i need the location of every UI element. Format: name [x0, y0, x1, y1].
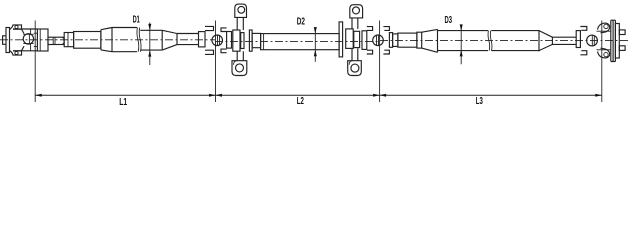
weld seam S curves right: [488, 31, 490, 51]
L3 left arrow: [380, 94, 387, 97]
bracket 2 bottom ear hook: [349, 61, 352, 65]
rear yoke ear top curl: [604, 24, 608, 28]
dimension extension line 1: [34, 21, 36, 103]
centerline left section: [0, 40, 629, 42]
centerline middle section: [215, 41, 380, 43]
rear yoke ear bottom: [598, 48, 610, 58]
u-joint 1 right arm inner top: [34, 32, 38, 34]
L1 right arrow: [209, 94, 216, 97]
joint 3 right boss: [389, 33, 392, 48]
taper 3 end tick: [551, 37, 553, 45]
bearing 1 inner ring: [241, 33, 244, 49]
rear flange boss top: [619, 30, 625, 35]
tube 3 left part: [438, 31, 489, 51]
u-joint 4 cross pin: [592, 35, 594, 45]
yoke 1 top edge: [13, 28, 37, 30]
dimension extension line 3: [379, 21, 381, 103]
yoke 1 web bottom: [22, 46, 25, 51]
L2 left arrow: [216, 94, 223, 97]
u-joint 2 cross pin: [218, 35, 220, 45]
u-joint 3 cross pin: [377, 35, 379, 45]
svg-text:L2: L2: [297, 96, 304, 107]
joint 3 left boss: [362, 31, 367, 50]
cone up right: [422, 29, 438, 52]
svg-text:D2: D2: [297, 16, 305, 27]
bearing 2 inner ring: [354, 31, 360, 47]
spline shaft: [48, 37, 64, 44]
front flange pilot: [3, 36, 6, 45]
u-joint 1 bearing cup lines: [30, 29, 32, 51]
slip yoke barrel: [37, 29, 48, 51]
bracket 1 bottom ear: [232, 61, 247, 76]
rear yoke ear bottom curl: [604, 52, 608, 56]
u-joint 3 cross circle: [373, 35, 384, 46]
tube 1 at D1: [140, 30, 162, 50]
u-joint 1 cross circle: [23, 34, 33, 44]
joint 3 left fork bottom: [367, 50, 373, 54]
svg-text:L3: L3: [476, 96, 483, 107]
L2 right arrow: [373, 94, 380, 97]
bracket 1 top ear hole: [238, 6, 245, 13]
L3 right arrow: [595, 94, 602, 97]
rear flange boss bottom: [619, 46, 625, 51]
D2 dimension line: [314, 27, 316, 62]
joint 3 left fork top: [367, 27, 373, 31]
cylinder A seam: [67, 33, 69, 47]
flange bottom hook: [10, 51, 22, 56]
stub cylinder C: [393, 34, 398, 47]
dimension extension line 2: [215, 21, 217, 103]
joint 2 left boss: [199, 32, 206, 47]
bracket 2 top ear: [350, 5, 363, 18]
bearing 2 housing: [346, 29, 354, 49]
stub cylinder E: [417, 32, 422, 48]
joint 2 right fork bottom: [221, 49, 227, 53]
u-joint 2 cross circle: [212, 35, 223, 46]
svg-text:L1: L1: [119, 97, 127, 108]
shaft to joint 4: [552, 37, 576, 44]
joint 4 boss: [576, 31, 580, 48]
tube 1 end tick: [161, 30, 163, 50]
tube 2 weld tick: [263, 34, 265, 50]
front flange plate: [6, 28, 10, 53]
cone up: [101, 28, 112, 52]
u-joint 1 cross pin: [28, 34, 30, 44]
yoke 1 bottom edge: [13, 50, 37, 52]
centerline right section: [380, 40, 629, 42]
tube weld face: [100, 30, 102, 50]
bracket 2 top ear hole: [353, 7, 360, 14]
joint 4 fork top: [580, 27, 586, 31]
joint 4 fork bottom: [580, 51, 586, 55]
rear yoke arm bottom edge: [597, 49, 611, 51]
u-joint 1 right arm inner bottom: [34, 46, 38, 48]
rear flange disc: [615, 24, 619, 59]
D1 arrows: [148, 24, 151, 31]
joint 2 right boss: [227, 32, 232, 49]
joint 3 right fork bottom: [383, 50, 389, 54]
u-joint 1 bearing cup bands: [23, 34, 33, 43]
cone end tick right: [437, 29, 439, 52]
u-joint 4 cross circle: [587, 35, 598, 46]
rear flange plate lines: [611, 20, 616, 61]
companion flange 2: [339, 22, 343, 57]
flange ear bolt bottom: [15, 51, 18, 54]
svg-text:D3: D3: [445, 15, 453, 26]
D1 dimension line: [149, 23, 151, 66]
taper 1 end tick: [176, 33, 178, 45]
snap ring ticks: [52, 37, 54, 44]
flange ear bolt top: [15, 25, 18, 28]
L1 left arrow: [35, 94, 42, 97]
bracket 2 bottom ear: [348, 61, 362, 76]
cone end tick: [111, 28, 113, 52]
taper down: [162, 30, 177, 50]
tube 3 right part: [491, 31, 539, 51]
slip yoke barrel seam: [39, 29, 41, 51]
weld seam S curves: [137, 28, 139, 52]
stub cylinder B: [74, 32, 101, 49]
bearing 1 housing: [233, 30, 240, 51]
D3 dimension line: [460, 25, 462, 64]
joint 2 left fork top: [205, 26, 214, 30]
spline end wedge: [62, 37, 64, 44]
D2 arrows: [314, 27, 317, 33]
taper down right: [539, 31, 552, 51]
dimension line L1 L2 L3: [35, 94, 602, 96]
bracket 1 bottom ear hook: [234, 61, 237, 65]
flange top hook: [10, 25, 22, 30]
bracket 1 top ear: [235, 4, 247, 17]
dimension extension line 4: [601, 21, 603, 103]
bracket 2 bottom ear hole: [351, 64, 359, 72]
bracket 1 stem: [237, 17, 243, 60]
rear yoke ear top: [598, 23, 610, 33]
stub cylinder D: [398, 33, 417, 47]
D3 arrows: [460, 24, 463, 31]
tube 1 large: [112, 28, 137, 52]
rear yoke arm top edge: [597, 30, 611, 32]
joint 3 right fork top: [383, 27, 389, 31]
bracket 2 stem: [352, 18, 358, 61]
joint 2 right fork top: [221, 28, 227, 32]
tube 2: [261, 34, 340, 50]
svg-text:D1: D1: [133, 14, 140, 25]
companion flange 1: [249, 30, 252, 51]
bracket 1 bottom ear hole: [236, 64, 244, 72]
stub after flange 1: [252, 33, 261, 47]
joint 2 left fork bottom: [205, 50, 214, 54]
tube 3 end tick: [538, 30, 540, 51]
shaft to joint 2: [177, 34, 199, 45]
yoke 1 web top: [22, 29, 25, 33]
stub cylinder A: [64, 33, 73, 47]
